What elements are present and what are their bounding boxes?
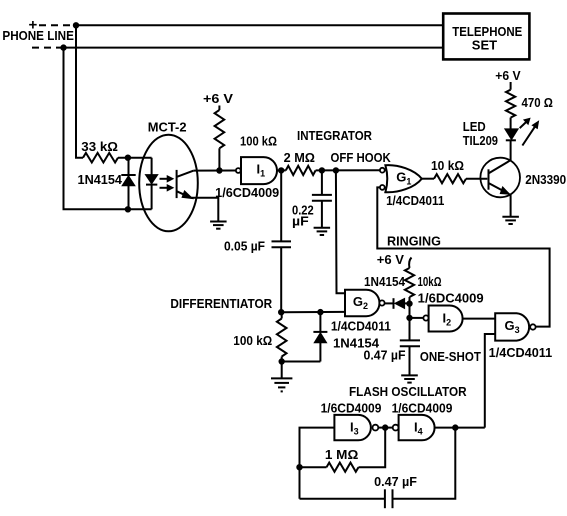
resistor 100 kohm pullup xyxy=(215,110,277,149)
power +6 V for 100k xyxy=(203,91,233,110)
svg-text:TIL209: TIL209 xyxy=(463,134,498,148)
svg-text:FLASH OSCILLATOR: FLASH OSCILLATOR xyxy=(349,384,467,399)
capacitor 0.22 uF xyxy=(292,170,332,228)
label FLASH OSCILLATOR xyxy=(349,384,467,399)
svg-text:DIFFERENTIATOR: DIFFERENTIATOR xyxy=(170,296,272,311)
wire emitter to ground xyxy=(508,194,510,217)
wire collector to I1 input xyxy=(194,168,236,173)
wire 10k to diode node xyxy=(407,297,412,306)
inverter I3 1/6CD4009 xyxy=(321,402,382,441)
ground emitter MCT-2 xyxy=(210,222,227,229)
svg-text:I1: I1 xyxy=(257,162,266,179)
phototransistor inside MCT-2 xyxy=(177,170,194,199)
wire 100k to collector node xyxy=(218,148,220,170)
label OFF HOOK xyxy=(331,150,392,165)
svg-text:PHONE LINE: PHONE LINE xyxy=(2,28,74,43)
wire phone line plus to telephone set xyxy=(74,23,444,28)
svg-text:10kΩ: 10kΩ xyxy=(418,274,442,289)
svg-text:G1: G1 xyxy=(396,170,411,187)
nand gate G1 1/4CD4011 negative-OR xyxy=(380,165,444,208)
svg-text:33 kΩ: 33 kΩ xyxy=(81,139,118,154)
svg-text:1N4154: 1N4154 xyxy=(78,173,123,187)
svg-text:1/6DC4009: 1/6DC4009 xyxy=(418,292,484,306)
svg-text:+6 V: +6 V xyxy=(203,91,233,106)
capacitor 0.47 uF flash oscillator xyxy=(300,428,456,509)
diode 1N4154 reverse protection xyxy=(78,158,136,210)
svg-text:100 kΩ: 100 kΩ xyxy=(233,333,272,348)
telephone set box xyxy=(443,14,529,60)
LED inside MCT-2 xyxy=(145,158,157,210)
wire 2M to G1 input / OFF HOOK node xyxy=(316,168,380,173)
resistor 33 kohm xyxy=(81,139,118,163)
wire I3 input branch xyxy=(297,428,334,499)
wire phone line minus to telephone set xyxy=(61,45,443,50)
ground 0.22 uF xyxy=(314,228,331,235)
svg-text:OFF HOOK: OFF HOOK xyxy=(331,150,392,165)
svg-text:LED: LED xyxy=(463,119,486,134)
capacitor 0.05 uF xyxy=(224,170,291,312)
inverter I2 1/6DC4009 xyxy=(418,292,484,332)
svg-text:0.47 µF: 0.47 µF xyxy=(374,474,417,489)
light arrows LED xyxy=(520,118,539,145)
svg-text:INTEGRATOR: INTEGRATOR xyxy=(297,128,373,143)
svg-text:1/4CD4011: 1/4CD4011 xyxy=(331,319,391,333)
wire I2 output to G3 xyxy=(462,318,495,320)
resistor 10 kohm one-shot xyxy=(405,268,442,297)
svg-text:SET: SET xyxy=(472,37,497,52)
svg-text:0.05 µF: 0.05 µF xyxy=(224,238,265,253)
svg-text:I4: I4 xyxy=(414,420,423,437)
svg-text:1/6CD4009: 1/6CD4009 xyxy=(392,402,453,416)
nand gate G3 1/4CD4011 xyxy=(489,313,553,360)
wire diode bottom to resistor bottom xyxy=(279,357,320,378)
node phone line plus terminal xyxy=(29,17,75,34)
svg-text:+6 V: +6 V xyxy=(377,253,405,267)
wire I3 out to I4 in xyxy=(378,425,392,430)
power +6 V LED supply xyxy=(495,69,521,90)
svg-text:2N3390: 2N3390 xyxy=(525,172,566,187)
resistor 2 Mohm xyxy=(284,150,316,175)
svg-text:1/6CD4009: 1/6CD4009 xyxy=(215,186,279,200)
svg-text:470 Ω: 470 Ω xyxy=(522,96,553,110)
wire I1 output xyxy=(277,168,286,173)
light arrows MCT-2 xyxy=(160,176,174,191)
resistor 470 ohm xyxy=(506,90,553,118)
svg-text:100 kΩ: 100 kΩ xyxy=(240,134,277,149)
wire minus line down to bottom rail xyxy=(64,48,152,210)
svg-text:+6 V: +6 V xyxy=(495,69,521,83)
wire collector to LED xyxy=(510,140,512,160)
svg-text:MCT-2: MCT-2 xyxy=(148,120,187,135)
inverter I1 1/6CD4009 xyxy=(215,157,279,200)
optocoupler MCT-2 body xyxy=(139,120,198,232)
svg-text:1N4154: 1N4154 xyxy=(364,275,405,289)
wire differentiator node to G2 lower input xyxy=(279,310,345,315)
LED TIL209 xyxy=(463,118,519,148)
label INTEGRATOR xyxy=(297,128,373,143)
resistor 1 Mohm feedback xyxy=(300,428,386,472)
svg-text:10 kΩ: 10 kΩ xyxy=(431,158,464,173)
ground transistor emitter xyxy=(502,217,519,224)
svg-text:RINGING: RINGING xyxy=(387,233,441,248)
svg-text:1/4CD4011: 1/4CD4011 xyxy=(489,346,553,360)
node bottom rail junction xyxy=(126,207,131,212)
nand gate G2 1/4CD4011 xyxy=(331,290,391,334)
svg-text:1/6CD4009: 1/6CD4009 xyxy=(321,402,382,416)
label ONE-SHOT xyxy=(420,349,481,364)
ground one-shot capacitor xyxy=(401,375,418,382)
wire plus line down to 33k resistor xyxy=(76,25,83,157)
wire RINGING feedback G3 output to G1 input xyxy=(377,187,549,326)
label RINGING xyxy=(387,233,441,248)
diode 1N4154 differentiator xyxy=(313,312,379,361)
ground differentiator xyxy=(271,378,292,391)
wire OFF HOOK node down to G2 input xyxy=(336,170,345,293)
resistor 10 kohm base xyxy=(431,158,466,183)
wire node down to capacitor and I2 xyxy=(407,303,423,340)
wire emitter to ground xyxy=(191,198,219,222)
svg-text:G3: G3 xyxy=(505,318,520,335)
transistor 2N3390 xyxy=(480,158,566,198)
svg-text:µF: µF xyxy=(292,214,309,229)
inverter I4 1/6CD4009 xyxy=(392,402,453,441)
wire G3 lower input from flash oscillator xyxy=(485,334,495,428)
svg-text:1/4CD4011: 1/4CD4011 xyxy=(386,194,444,208)
node phone line minus terminal xyxy=(32,47,62,49)
wire G1 output to 10k xyxy=(422,178,434,180)
svg-text:ONE-SHOT: ONE-SHOT xyxy=(420,349,481,364)
svg-text:I3: I3 xyxy=(350,420,359,437)
label DIFFERENTIATOR xyxy=(170,296,272,311)
svg-text:G2: G2 xyxy=(353,294,368,311)
resistor 100 kohm differentiator xyxy=(233,312,286,356)
svg-text:0.47 µF: 0.47 µF xyxy=(364,348,406,363)
label PHONE LINE xyxy=(2,28,74,43)
capacitor 0.47 uF one-shot xyxy=(364,340,421,375)
svg-text:I2: I2 xyxy=(443,311,452,328)
wire 33k to LED anode rail xyxy=(118,155,152,160)
svg-text:2 MΩ: 2 MΩ xyxy=(284,150,315,165)
svg-text:1 MΩ: 1 MΩ xyxy=(325,447,358,462)
wire 10k to transistor base xyxy=(466,178,487,180)
diode 1N4154 one-shot series xyxy=(364,275,410,309)
wire I4 output to G3 branch xyxy=(434,425,484,430)
power +6 V one-shot xyxy=(377,253,412,268)
